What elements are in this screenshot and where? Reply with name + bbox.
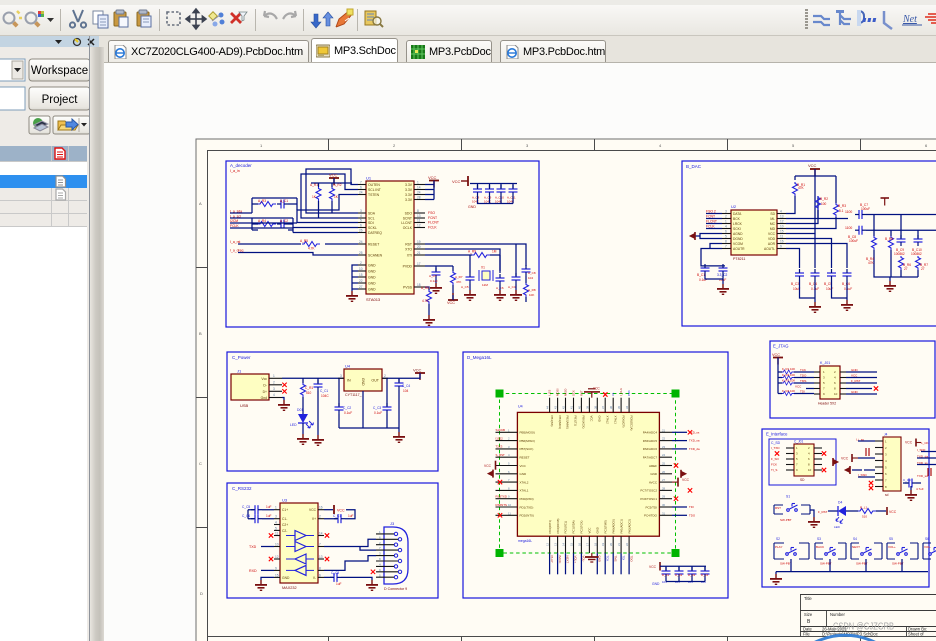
svg-text:S2: S2 bbox=[776, 537, 780, 541]
svg-text:C2-: C2- bbox=[282, 529, 287, 533]
svg-text:RST: RST bbox=[405, 243, 412, 247]
svg-text:I1902: I1902 bbox=[496, 436, 504, 440]
capacitor A_C8 right tall bbox=[522, 265, 536, 280]
svg-text:VCC: VCC bbox=[841, 457, 849, 461]
svg-text:PD0(RXD): PD0(RXD) bbox=[520, 497, 534, 501]
bottom red labels bbox=[550, 556, 634, 564]
svg-text:26: 26 bbox=[359, 229, 363, 233]
sheet symbol A_decoder bbox=[226, 161, 539, 327]
svg-text:C_Power: C_Power bbox=[232, 355, 251, 360]
svg-text:20: 20 bbox=[417, 245, 421, 249]
right wires bbox=[846, 372, 877, 394]
svg-text:GND: GND bbox=[650, 472, 658, 476]
svg-text:B_C3: B_C3 bbox=[791, 282, 799, 286]
svg-text:TDI: TDI bbox=[800, 390, 805, 394]
svg-text:GND: GND bbox=[468, 205, 476, 209]
svg-text:U1: U1 bbox=[366, 176, 372, 181]
svg-text:2: 2 bbox=[319, 515, 321, 519]
svg-text:1uF: 1uF bbox=[348, 514, 354, 518]
svg-text:1: 1 bbox=[725, 220, 727, 224]
cap bank D bbox=[649, 562, 710, 586]
svg-text:VOL-: VOL- bbox=[924, 545, 931, 549]
switch S2 bbox=[774, 537, 809, 572]
svg-text:31: 31 bbox=[662, 511, 666, 515]
svg-text:PA4/ADC4: PA4/ADC4 bbox=[643, 431, 658, 435]
move cross bbox=[186, 9, 206, 29]
svg-text:VCC: VCC bbox=[413, 368, 422, 373]
svg-text:CYT1117_: CYT1117_ bbox=[345, 393, 363, 397]
gnd A_R6 bbox=[423, 304, 435, 326]
svg-text:PB1(T1): PB1(T1) bbox=[574, 416, 578, 426]
red cap J4 bbox=[866, 448, 869, 456]
resistor A_R9 horizontal bbox=[468, 250, 497, 258]
capacitor D_C2 bbox=[675, 567, 684, 578]
svg-text:37: 37 bbox=[601, 406, 605, 409]
svg-text:PT8211: PT8211 bbox=[733, 257, 745, 261]
svg-text:PB0(XCK): PB0(XCK) bbox=[582, 416, 586, 429]
sheet symbol C_RS232 bbox=[227, 483, 438, 598]
svg-text:GND: GND bbox=[520, 472, 528, 476]
VCC B top bbox=[808, 163, 820, 176]
svg-text:39: 39 bbox=[585, 406, 589, 409]
svg-text:SW-PBT: SW-PBT bbox=[780, 518, 792, 522]
pwr arrow mid bbox=[845, 466, 862, 474]
red cap right bbox=[928, 468, 931, 476]
switch S1 bbox=[774, 495, 820, 529]
svg-text:OUT: OUT bbox=[371, 379, 379, 383]
resistor B_R3 bbox=[834, 203, 847, 217]
left net labels bbox=[706, 210, 717, 229]
svg-text:9: 9 bbox=[275, 566, 277, 570]
combo 2 bbox=[0, 87, 25, 110]
scissors bbox=[70, 10, 86, 28]
svg-text:TCK: TCK bbox=[800, 368, 806, 372]
svg-text:D+: D+ bbox=[263, 390, 267, 394]
svg-text:PD2(INT0): PD2(INT0) bbox=[520, 514, 534, 518]
svg-text:C_C7: C_C7 bbox=[333, 514, 341, 518]
top inside names bbox=[550, 416, 634, 431]
svg-text:VCC: VCC bbox=[484, 464, 492, 468]
svg-text:A_C4: A_C4 bbox=[508, 285, 516, 289]
svg-text:16: 16 bbox=[577, 543, 581, 546]
svg-text:PC2(TCK): PC2(TCK) bbox=[580, 521, 584, 534]
svg-text:GND: GND bbox=[368, 270, 376, 274]
svg-text:B_C4: B_C4 bbox=[809, 282, 817, 286]
svg-text:VCC: VCC bbox=[447, 301, 455, 305]
svg-text:VOL+: VOL+ bbox=[888, 545, 896, 549]
svg-text:17: 17 bbox=[417, 262, 421, 266]
svg-text:4.7K: 4.7K bbox=[308, 247, 315, 251]
svg-text:PD5(OC1A): PD5(OC1A) bbox=[629, 416, 633, 431]
svg-text:U4: U4 bbox=[345, 364, 351, 369]
svg-text:28: 28 bbox=[417, 196, 421, 200]
svg-text:11: 11 bbox=[508, 511, 511, 515]
svg-text:12: 12 bbox=[780, 220, 784, 224]
svg-text:C2+: C2+ bbox=[282, 523, 288, 527]
svg-text:VCC: VCC bbox=[795, 385, 802, 389]
svg-text:D: D bbox=[200, 591, 203, 596]
svg-text:D01: D01 bbox=[297, 408, 303, 412]
svg-text:104: 104 bbox=[528, 276, 533, 280]
bottom inside names bbox=[548, 519, 632, 534]
svg-text:12: 12 bbox=[417, 224, 421, 228]
svg-text:10uF: 10uF bbox=[826, 287, 833, 291]
svg-text:26: 26 bbox=[662, 470, 666, 474]
gnd right bbox=[905, 486, 917, 501]
svg-text:GND: GND bbox=[851, 368, 859, 372]
svg-text:AOUTR: AOUTR bbox=[733, 247, 745, 251]
svg-text:PA1(ADC1): PA1(ADC1) bbox=[619, 519, 623, 533]
svg-text:F_SO: F_SO bbox=[771, 457, 780, 461]
svg-text:TI_S: TI_S bbox=[771, 468, 777, 472]
wires right rails bbox=[786, 169, 848, 268]
svg-text:14: 14 bbox=[562, 543, 566, 546]
svg-text:8: 8 bbox=[319, 566, 321, 570]
svg-text:Net: Net bbox=[902, 14, 917, 25]
svg-text:100862: 100862 bbox=[911, 252, 922, 256]
svg-text:PB7(SCK): PB7(SCK) bbox=[520, 447, 534, 451]
svg-text:8: 8 bbox=[417, 209, 419, 213]
title block bbox=[800, 594, 936, 636]
svg-text:510: 510 bbox=[862, 515, 867, 519]
capacitor B_C4 bbox=[809, 269, 820, 291]
svg-text:VCC: VCC bbox=[889, 510, 897, 514]
svg-text:3: 3 bbox=[275, 515, 277, 519]
svg-text:4: 4 bbox=[725, 225, 727, 229]
svg-text:I_a_rst: I_a_rst bbox=[230, 240, 240, 244]
wires to DB9 bbox=[324, 539, 376, 570]
output channel 2 bbox=[845, 226, 936, 243]
VCC bottom mid bbox=[447, 293, 458, 305]
svg-text:PLAY: PLAY bbox=[550, 556, 554, 563]
capacitor D_C3 bbox=[688, 567, 697, 578]
regulator U4 bbox=[338, 364, 388, 398]
svg-text:C_C5: C_C5 bbox=[242, 505, 250, 509]
svg-text:PA5/ADC5: PA5/ADC5 bbox=[643, 439, 658, 443]
right X marks bbox=[325, 533, 329, 537]
svg-text:34: 34 bbox=[625, 406, 629, 409]
svg-text:35: 35 bbox=[617, 406, 621, 409]
svg-text:11: 11 bbox=[417, 219, 421, 223]
svg-text:F_RST: F_RST bbox=[851, 379, 861, 383]
capacitor C_C1 bbox=[312, 378, 329, 446]
svg-text:C_C6: C_C6 bbox=[242, 514, 250, 518]
output channel 1 bbox=[845, 203, 936, 219]
svg-text:VCC: VCC bbox=[520, 464, 527, 468]
svg-text:A_decoder: A_decoder bbox=[230, 163, 252, 168]
svg-text:19: 19 bbox=[601, 543, 605, 546]
svg-text:SCK: SCK bbox=[572, 390, 576, 396]
svg-text:3: 3 bbox=[273, 387, 275, 391]
svg-text:S1: S1 bbox=[786, 495, 790, 499]
J4 left labels bbox=[856, 438, 868, 478]
svg-text:AOR: AOR bbox=[768, 242, 776, 246]
capacitor A_C5 bbox=[461, 273, 476, 301]
svg-text:S5: S5 bbox=[889, 537, 893, 541]
svg-text:12M: 12M bbox=[482, 283, 488, 287]
svg-text:C_J01: C_J01 bbox=[794, 440, 803, 444]
top pins bbox=[550, 398, 630, 413]
svg-text:10: 10 bbox=[508, 503, 512, 507]
svg-text:VCC: VCC bbox=[590, 416, 594, 422]
IC U3 MAX232 bbox=[274, 498, 324, 591]
svg-text:21: 21 bbox=[617, 543, 621, 546]
decoder IC U1 bbox=[358, 176, 425, 303]
svg-text:TXD: TXD bbox=[249, 545, 257, 549]
svg-text:8: 8 bbox=[725, 240, 727, 244]
svg-text:LED: LED bbox=[834, 525, 841, 529]
svg-text:SCL: SCL bbox=[368, 217, 375, 221]
svg-text:TDO: TDO bbox=[800, 374, 807, 378]
svg-text:GND: GND bbox=[368, 276, 376, 280]
svg-text:DATREQ: DATREQ bbox=[368, 231, 382, 235]
svg-text:C_C9: C_C9 bbox=[903, 478, 911, 482]
capacitor A_C12 bbox=[509, 185, 518, 196]
capacitor A_C6 bbox=[494, 274, 506, 301]
svg-text:SCKI: SCKI bbox=[733, 227, 741, 231]
svg-text:RS6NTS: RS6NTS bbox=[496, 503, 507, 507]
capacitor D_C1 bbox=[662, 567, 671, 578]
svg-text:SCL INT: SCL INT bbox=[368, 188, 381, 192]
svg-text:1M: 1M bbox=[492, 250, 497, 254]
svg-text:VCC: VCC bbox=[851, 374, 858, 378]
svg-text:D_C1: D_C1 bbox=[662, 573, 670, 577]
combo 1 bbox=[0, 59, 25, 81]
resistor B_R5 bbox=[885, 236, 894, 250]
line tool bbox=[884, 11, 892, 29]
svg-text:15: 15 bbox=[275, 573, 279, 577]
svg-text:1uF: 1uF bbox=[266, 514, 272, 518]
file table bbox=[0, 146, 87, 227]
svg-text:BACK: BACK bbox=[558, 556, 562, 564]
svg-text:E_JTAG: E_JTAG bbox=[773, 344, 789, 349]
svg-text:B_DAC: B_DAC bbox=[686, 164, 702, 169]
capacitor B_C10 bbox=[911, 235, 923, 256]
svg-text:C_C2: C_C2 bbox=[343, 406, 351, 410]
svg-text:6: 6 bbox=[725, 230, 727, 234]
svg-text:4: 4 bbox=[273, 393, 275, 397]
svg-text:24: 24 bbox=[359, 240, 363, 244]
svg-text:RESET: RESET bbox=[368, 243, 379, 247]
find/browse bbox=[365, 11, 383, 27]
svg-text:47K: 47K bbox=[798, 186, 805, 190]
resistor B_R6 bbox=[899, 256, 912, 271]
capacitor D_C4 bbox=[701, 567, 710, 578]
svg-text:S6: S6 bbox=[925, 537, 929, 541]
svg-text:PVDD: PVDD bbox=[403, 265, 413, 269]
svg-text:PD3(INT1): PD3(INT1) bbox=[548, 520, 552, 533]
left pins bbox=[496, 432, 518, 515]
svg-text:SDA: SDA bbox=[368, 212, 376, 216]
svg-text:TDI: TDI bbox=[689, 505, 694, 509]
left red labels bbox=[496, 428, 507, 507]
mcu U4 mega16L bbox=[517, 412, 659, 536]
svg-text:B_C1: B_C1 bbox=[697, 273, 705, 277]
svg-text:GND: GND bbox=[361, 378, 365, 386]
right labels bbox=[689, 430, 700, 517]
svg-text:1: 1 bbox=[417, 181, 419, 185]
resistor A_R2 bbox=[330, 183, 342, 201]
DB9 connector J3 bbox=[371, 521, 408, 591]
copy bbox=[93, 11, 108, 28]
svg-text:Sheet of: Sheet of bbox=[908, 632, 924, 637]
svg-text:104C: 104C bbox=[321, 394, 329, 398]
svg-text:9: 9 bbox=[780, 245, 782, 249]
svg-text:47K: 47K bbox=[868, 261, 875, 265]
VCC right of U1 bbox=[425, 175, 439, 200]
svg-text:41: 41 bbox=[570, 406, 574, 409]
svg-text:AOUTL: AOUTL bbox=[764, 247, 775, 251]
svg-text:11: 11 bbox=[275, 532, 279, 536]
capacitor C_C7 bbox=[324, 510, 355, 524]
red power up symbol bbox=[881, 198, 890, 206]
svg-text:0.1uF: 0.1uF bbox=[430, 279, 438, 283]
svg-text:3: 3 bbox=[360, 209, 362, 213]
svg-text:PD4(OC1B): PD4(OC1B) bbox=[556, 519, 560, 534]
svg-text:1_CK: 1_CK bbox=[921, 441, 929, 445]
svg-text:C1+: C1+ bbox=[282, 508, 288, 512]
svg-text:4: 4 bbox=[275, 521, 277, 525]
svg-text:VOL+: VOL+ bbox=[574, 556, 578, 564]
zone labels bbox=[199, 143, 928, 596]
zoom icon 2 bbox=[26, 11, 45, 28]
resistor K_R2 bbox=[782, 373, 795, 380]
svg-text:D_C4: D_C4 bbox=[701, 573, 709, 577]
resistor B_R1 bbox=[793, 182, 806, 196]
resistor B_R7 bbox=[916, 256, 929, 271]
svg-text:PB3(AIN1): PB3(AIN1) bbox=[558, 416, 562, 429]
svg-text:12: 12 bbox=[275, 555, 279, 559]
svg-text:U4: U4 bbox=[518, 405, 523, 409]
svg-text:3.3V: 3.3V bbox=[405, 198, 413, 202]
delete filter bbox=[231, 12, 247, 23]
nc X marks USB bbox=[282, 383, 286, 387]
blue arc bottom bbox=[777, 635, 914, 641]
svg-text:3.3V: 3.3V bbox=[405, 193, 413, 197]
svg-text:SDI: SDI bbox=[368, 221, 374, 225]
svg-text:4: 4 bbox=[360, 214, 362, 218]
svg-text:15: 15 bbox=[570, 543, 574, 546]
bottom wires bbox=[550, 553, 630, 574]
paste special bbox=[137, 10, 151, 27]
svg-text:0.1uF: 0.1uF bbox=[374, 411, 382, 415]
capacitor A_C4 bbox=[508, 244, 522, 301]
frame inner lines bbox=[196, 139, 936, 641]
grid bbox=[0, 146, 87, 227]
svg-text:T2K3: T2K3 bbox=[496, 445, 503, 449]
VCC JTAG bbox=[772, 353, 783, 394]
undo bbox=[264, 11, 277, 19]
buffer T2 bbox=[295, 542, 306, 552]
svg-text:7: 7 bbox=[725, 245, 727, 249]
svg-text:MISO: MISO bbox=[564, 388, 568, 396]
svg-text:TDO: TDO bbox=[629, 556, 633, 563]
svg-text:1100: 1100 bbox=[845, 210, 852, 214]
svg-text:B_R3: B_R3 bbox=[838, 204, 846, 208]
gnd cap pairs bbox=[800, 280, 854, 313]
svg-text:13: 13 bbox=[417, 214, 421, 218]
top red labels bbox=[548, 388, 632, 396]
svg-text:PC1(SDA): PC1(SDA) bbox=[572, 520, 576, 533]
capacitor C_C3 bbox=[373, 378, 392, 428]
svg-text:43: 43 bbox=[554, 406, 558, 409]
svg-text:FCK: FCK bbox=[771, 463, 777, 467]
sheet bbox=[196, 139, 936, 641]
svg-text:24: 24 bbox=[417, 191, 421, 195]
svg-text:TSTEN: TSTEN bbox=[368, 193, 380, 197]
svg-text:DATA: DATA bbox=[733, 212, 742, 216]
resistor A_R7 bbox=[451, 271, 463, 285]
switch S5 bbox=[887, 537, 918, 572]
svg-text:STA013: STA013 bbox=[366, 297, 381, 302]
svg-text:F_RST: F_RST bbox=[818, 510, 828, 514]
svg-text:29: 29 bbox=[662, 495, 666, 499]
RC pair A_R4/A_C2 bbox=[252, 218, 293, 233]
svg-text:PA2(ADC2): PA2(ADC2) bbox=[627, 519, 631, 533]
svg-text:I_TXD: I_TXD bbox=[771, 446, 781, 450]
svg-text:PD6: PD6 bbox=[627, 390, 631, 396]
svg-text:C_C1: C_C1 bbox=[320, 389, 328, 393]
svg-text:D_Mega16L: D_Mega16L bbox=[467, 355, 492, 360]
svg-text:4.7K: 4.7K bbox=[422, 299, 429, 303]
svg-text:LLCNT: LLCNT bbox=[401, 221, 412, 225]
selection handles bbox=[496, 390, 680, 558]
wire icon bbox=[813, 16, 830, 25]
svg-text:A_R8: A_R8 bbox=[528, 288, 536, 292]
up down arrows bbox=[311, 12, 333, 28]
svg-text:5: 5 bbox=[275, 526, 277, 530]
svg-text:GND: GND bbox=[598, 416, 602, 422]
svg-text:Title: Title bbox=[804, 596, 812, 601]
svg-text:RST: RST bbox=[579, 390, 583, 396]
capacitor B_C1 bbox=[697, 264, 710, 282]
main 5V rail wire bbox=[282, 377, 417, 379]
svg-text:VCC: VCC bbox=[452, 179, 461, 184]
workspace button bbox=[29, 59, 90, 81]
USB connector J1 bbox=[231, 369, 282, 409]
svg-text:PD6(ICP): PD6(ICP) bbox=[621, 416, 625, 428]
svg-text:PC3(TMS): PC3(TMS) bbox=[604, 520, 608, 533]
svg-text:21: 21 bbox=[417, 251, 421, 255]
svg-text:I_CLK: I_CLK bbox=[619, 388, 623, 396]
svg-text:OUTEN: OUTEN bbox=[368, 183, 380, 187]
svg-text:LED: LED bbox=[290, 423, 297, 427]
svg-text:VDD: VDD bbox=[768, 237, 776, 241]
svg-text:10: 10 bbox=[780, 225, 784, 229]
svg-text:Gnd: Gnd bbox=[261, 396, 268, 400]
svg-text:D4: D4 bbox=[838, 501, 842, 505]
svg-text:VCC: VCC bbox=[428, 175, 437, 180]
connector J4 bbox=[875, 433, 901, 498]
svg-text:1uF: 1uF bbox=[266, 505, 272, 509]
capacitor A_C10 bbox=[485, 185, 494, 196]
svg-text:Project: Project bbox=[42, 94, 79, 106]
pwr arrow sub bbox=[833, 458, 838, 466]
filter verticals bbox=[874, 215, 918, 282]
svg-text:27: 27 bbox=[662, 478, 666, 482]
svg-text:D_C2: D_C2 bbox=[675, 573, 683, 577]
svg-text:27: 27 bbox=[359, 285, 363, 289]
svg-text:VCC: VCC bbox=[682, 478, 690, 482]
svg-text:3: 3 bbox=[340, 374, 342, 378]
svg-text:SCKL: SCKL bbox=[368, 226, 377, 230]
left X marks bbox=[498, 480, 502, 484]
svg-text:AVCC: AVCC bbox=[649, 480, 658, 484]
gray doc icon bbox=[56, 189, 66, 200]
svg-text:27: 27 bbox=[921, 267, 925, 271]
svg-text:VCC: VCC bbox=[649, 565, 657, 569]
svg-text:C_RS232: C_RS232 bbox=[232, 486, 252, 491]
